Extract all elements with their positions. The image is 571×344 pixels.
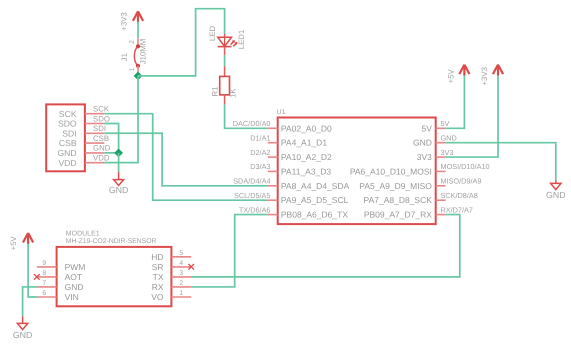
svg-text:VO: VO [151, 292, 164, 302]
net label SDO [93, 114, 110, 123]
ground symbol (below sensor) [109, 172, 129, 195]
LED LED1 [218, 34, 238, 56]
U1 right pin 5V [436, 119, 450, 128]
wire net GND: sensor GND pin to junction [104, 152, 118, 154]
svg-text:TX/D6/A6: TX/D6/A6 [239, 205, 271, 214]
U1 left pin DAC/D0/A0 [233, 119, 278, 128]
svg-text:5V: 5V [421, 123, 432, 133]
svg-text:R1: R1 [211, 87, 220, 97]
U1 right pin MISO/D9/A9 [436, 177, 482, 186]
svg-text:VDD: VDD [58, 158, 76, 168]
sensor pin SDI (stub + name) [62, 128, 104, 138]
sensor pin CSB (stub + name) [59, 138, 104, 148]
U1 pin name GND [413, 138, 432, 148]
svg-text:MH-Z19-CO2-NDIR-SENSOR: MH-Z19-CO2-NDIR-SENSOR [66, 238, 157, 245]
U1 right pin GND [436, 134, 457, 143]
svg-text:PA10_A2_D2: PA10_A2_D2 [281, 152, 332, 162]
+3V3 supply symbol (top left) [120, 11, 144, 30]
U1 left pin SCL/D5/A5 [234, 191, 278, 200]
J1 pin number 1 [129, 67, 136, 71]
U1 pin name PA10_A2_D2 [281, 152, 332, 162]
svg-text:4: 4 [179, 260, 183, 267]
svg-text:1: 1 [129, 67, 136, 71]
svg-text:CSB: CSB [59, 138, 77, 148]
LED1 name label [208, 26, 217, 42]
svg-text:GND: GND [109, 185, 129, 195]
U1 left pin SDA/D4/A4 [233, 177, 278, 186]
U1 left pin D2/A2 [250, 148, 277, 157]
svg-text:VDD: VDD [93, 154, 110, 163]
wire net 5V: U1 to +5V arrow [446, 75, 465, 128]
svg-text:SR: SR [152, 262, 164, 272]
svg-text:PB08_A6_D6_TX: PB08_A6_D6_TX [281, 210, 348, 220]
svg-text:8: 8 [42, 270, 46, 277]
svg-text:SDI: SDI [93, 124, 106, 133]
net label SCK [93, 105, 110, 114]
wire net VDD: sensor VDD to +3V3 junction [104, 76, 138, 163]
sensor pin GND (stub + name) [57, 148, 104, 158]
svg-text:+3V3: +3V3 [120, 12, 129, 30]
svg-text:J10MM: J10MM [139, 39, 148, 65]
U1 pin name PA9_A5_D5_SCL [281, 195, 349, 205]
J1 value label J10MM [139, 39, 148, 65]
svg-text:1: 1 [179, 290, 183, 297]
U1 right pin 3V3 [436, 148, 454, 157]
svg-text:TX: TX [153, 272, 164, 282]
wire net TX: U1 TX/D6/A6 to MODULE1 RX [191, 215, 268, 287]
resistor R1 (1K) [220, 66, 230, 104]
connector (SPI sensor header) [46, 104, 85, 171]
svg-text:SDA/D4/A4: SDA/D4/A4 [233, 177, 270, 186]
svg-text:LED: LED [208, 26, 217, 42]
svg-text:GND: GND [57, 148, 76, 158]
MODULE1 right pin 3 TX [153, 270, 192, 282]
wire net SCK: sensor SCK to U1 SCL/D5/A5 [104, 114, 267, 201]
U1 right pin MOSI/D10/A10 [436, 162, 490, 171]
U1 pin name PA8_A4_D4_SDA [281, 181, 350, 191]
MODULE1 left pin 9 PWM [37, 260, 85, 272]
svg-text:J1: J1 [120, 53, 129, 61]
svg-text:GND: GND [413, 138, 432, 148]
svg-text:SCK/D8/A8: SCK/D8/A8 [441, 191, 478, 200]
J1 reference label [120, 53, 129, 61]
svg-text:SCK: SCK [93, 105, 110, 114]
no-connect X on pin 8 AOT [34, 274, 40, 280]
svg-text:D2/A2: D2/A2 [250, 148, 270, 157]
svg-text:5V: 5V [441, 119, 450, 128]
svg-text:9: 9 [42, 260, 46, 267]
+3V3 supply symbol (top right) [480, 65, 503, 86]
svg-text:+5V: +5V [446, 68, 455, 83]
svg-text:GND: GND [93, 144, 111, 153]
svg-text:SCK: SCK [59, 109, 77, 119]
MODULE1 value label MH-Z19-CO2-NDIR-SENSOR [66, 238, 157, 245]
svg-text:MODULE1: MODULE1 [66, 231, 100, 238]
svg-text:RX/D7/A7: RX/D7/A7 [441, 205, 473, 214]
U1 pin name PA11_A3_D3 [281, 166, 332, 176]
svg-text:2: 2 [179, 280, 183, 287]
svg-text:5: 5 [179, 250, 183, 257]
svg-text:3: 3 [179, 270, 183, 277]
U1 right pin RX/D7/A7 [436, 205, 473, 214]
svg-text:SCL/D5/A5: SCL/D5/A5 [234, 191, 271, 200]
U1 pin name PA5_A9_D9_MISO [359, 181, 432, 191]
J1 pin number 2 [129, 40, 136, 44]
svg-text:PA5_A9_D9_MISO: PA5_A9_D9_MISO [359, 181, 432, 191]
U1 pin name 5V [421, 123, 432, 133]
ground symbol (bottom left) [13, 316, 33, 340]
svg-text:SDO: SDO [93, 114, 110, 123]
svg-text:7: 7 [42, 280, 46, 287]
R1 value label 1K [228, 88, 237, 98]
MODULE1 left pin 6 VIN [37, 290, 79, 302]
MODULE1 reference label [66, 231, 100, 238]
+5V supply symbol (top right) [446, 65, 469, 84]
svg-text:+5V: +5V [9, 235, 18, 250]
wire net +5V: MODULE1 VIN to +5V arrow [28, 244, 37, 297]
MODULE1 right pin 4 SR [152, 260, 192, 272]
svg-text:PA9_A5_D5_SCL: PA9_A5_D5_SCL [281, 195, 349, 205]
svg-text:PB09_A7_D7_RX: PB09_A7_D7_RX [364, 210, 432, 220]
U1 pin name PA4_A1_D1 [281, 138, 327, 148]
sensor pin SCK (stub + name) [59, 109, 104, 119]
wire net SDI: sensor SDI to U1 SDA/D4/A4 [104, 133, 267, 186]
svg-text:6: 6 [42, 290, 46, 297]
svg-text:PA7_A8_D8_SCK: PA7_A8_D8_SCK [364, 195, 433, 205]
svg-text:SDI: SDI [62, 128, 76, 138]
jumper J1 (value J10MM) [134, 38, 140, 76]
MODULE1 left pin 8 AOT [37, 270, 82, 282]
svg-text:D1/A1: D1/A1 [250, 134, 270, 143]
U1 left pin TX/D6/A6 [239, 205, 278, 214]
U1 right pin SCK/D8/A8 [436, 191, 478, 200]
U1 pin name PB08_A6_D6_TX [281, 210, 348, 220]
net label VDD [93, 154, 110, 163]
+5V supply symbol (bottom left) [9, 233, 33, 250]
svg-text:1K: 1K [228, 88, 237, 98]
svg-text:PA11_A3_D3: PA11_A3_D3 [281, 166, 332, 176]
svg-text:2: 2 [129, 40, 136, 44]
sensor pin VDD (stub + name) [58, 158, 104, 168]
U1 pin name PA6_A10_D10_MOSI [350, 166, 432, 176]
svg-text:GND: GND [546, 190, 566, 200]
LED1 reference label [237, 30, 246, 50]
wire net 3V3: U1 to +3V3 arrow [446, 75, 498, 157]
MODULE1 left pin 7 GND [37, 280, 84, 292]
module MODULE1 MH-Z19 CO2 sensor [57, 247, 172, 306]
sensor pin SDO (stub + name) [58, 119, 104, 129]
svg-text:VIN: VIN [65, 292, 79, 302]
svg-text:PWM: PWM [65, 262, 86, 272]
svg-text:PA02_A0_D0: PA02_A0_D0 [281, 123, 332, 133]
MODULE1 right pin 1 VO [151, 290, 191, 302]
svg-text:GND: GND [65, 282, 84, 292]
svg-text:+3V3: +3V3 [480, 67, 489, 85]
svg-text:3V3: 3V3 [441, 148, 454, 157]
U1 pin name PA7_A8_D8_SCK [364, 195, 433, 205]
svg-text:RX: RX [152, 282, 164, 292]
svg-text:GND: GND [441, 134, 457, 143]
wire R1 to U1 DAC/D0/A0 [225, 104, 268, 128]
svg-text:PA8_A4_D4_SDA: PA8_A4_D4_SDA [281, 181, 350, 191]
svg-text:HD: HD [151, 252, 163, 262]
U1 pin name 3V3 [417, 152, 432, 162]
wire net GND: U1 to right ground [446, 143, 556, 181]
net label CSB [93, 134, 109, 143]
U1 reference label [277, 109, 286, 116]
wire net SDO: sensor SDO down to GND junction [104, 123, 118, 152]
svg-text:DAC/D0/A0: DAC/D0/A0 [233, 119, 271, 128]
svg-text:U1: U1 [277, 109, 286, 116]
svg-text:MISO/D9/A9: MISO/D9/A9 [441, 177, 482, 186]
svg-text:LED1: LED1 [237, 30, 246, 50]
no-connect X on pin 4 SR [188, 264, 194, 270]
U1 left pin D1/A1 [250, 134, 277, 143]
net label SDI [93, 124, 106, 133]
svg-text:PA6_A10_D10_MOSI: PA6_A10_D10_MOSI [350, 166, 432, 176]
svg-text:D3/A3: D3/A3 [250, 162, 270, 171]
svg-text:MOSI/D10/A10: MOSI/D10/A10 [441, 162, 490, 171]
svg-text:SDO: SDO [58, 119, 77, 129]
ground symbol (right) [546, 181, 566, 201]
svg-text:GND: GND [13, 330, 33, 340]
wire +3V3 to J1 pin 2 [137, 22, 139, 39]
net label GND [93, 144, 111, 153]
junction at J1 / VDD / LED net [134, 72, 143, 81]
wire J1 junction to LED (up-and-over loop) [138, 9, 225, 76]
svg-text:3V3: 3V3 [417, 152, 432, 162]
wire net GND: MODULE1 GND to bottom ground [23, 287, 37, 316]
R1 reference label [211, 87, 220, 97]
MODULE1 right pin 2 RX [152, 280, 192, 292]
wire net RX: U1 RX/D7/A7 to MODULE1 TX [191, 215, 460, 277]
U1 pin name PB09_A7_D7_RX [364, 210, 432, 220]
U1 left pin D3/A3 [250, 162, 277, 171]
junction at sensor GND [114, 149, 123, 158]
wire LED cathode to R1 [224, 55, 226, 66]
svg-text:AOT: AOT [65, 272, 82, 282]
U1 pin name PA02_A0_D0 [281, 123, 332, 133]
op IC U1 (dev board) [278, 118, 436, 225]
svg-text:CSB: CSB [93, 134, 109, 143]
svg-text:PA4_A1_D1: PA4_A1_D1 [281, 138, 327, 148]
MODULE1 right pin 5 HD [151, 250, 191, 262]
wire junction down to GND symbol [118, 153, 120, 172]
